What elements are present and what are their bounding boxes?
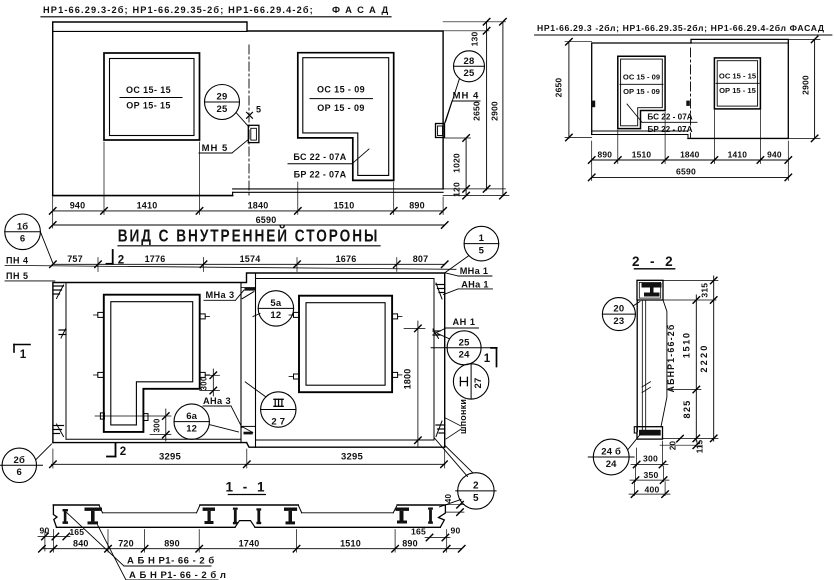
right margin dims 165/90 (section 1-1) — [411, 526, 460, 541]
svg-text:940: 940 — [767, 150, 782, 160]
svg-text:1410: 1410 — [728, 150, 748, 160]
svg-text:300: 300 — [152, 418, 161, 432]
svg-text:6: 6 — [17, 467, 22, 478]
svg-text:ОР 15 - 15: ОР 15 - 15 — [719, 86, 756, 95]
label OC15-15 / OP15-15 — [120, 85, 182, 111]
svg-text:ОР 15 - 09: ОР 15 - 09 — [623, 87, 660, 96]
window OC15-09 opening L-shaped (facade-left) — [298, 53, 394, 181]
dimension 6590 (facade-right) — [588, 164, 791, 181]
svg-text:90: 90 — [451, 526, 461, 536]
svg-text:3295: 3295 — [159, 452, 181, 463]
svg-text:ВИД С ВНУТРЕННЕЙ СТОРОНЫ: ВИД С ВНУТРЕННЕЙ СТОРОНЫ — [118, 225, 380, 246]
embedded T-anchor 6 (section 1-1) — [284, 508, 297, 525]
bottom width dims 300/350/400 (section 2-2) — [629, 441, 670, 497]
svg-text:ОС 15 - 09: ОС 15 - 09 — [623, 73, 660, 82]
window opening left L-shaped (middle view) — [104, 295, 200, 432]
svg-text:АБНР1-66-2б: АБНР1-66-2б — [666, 324, 676, 393]
svg-text:1: 1 — [20, 349, 27, 361]
callout circle 28/25 — [446, 51, 485, 122]
svg-text:МН 4: МН 4 — [453, 91, 480, 102]
svg-text:807: 807 — [413, 254, 429, 264]
svg-text:ПН 4: ПН 4 — [6, 256, 28, 266]
svg-text:40: 40 — [444, 494, 453, 504]
svg-text:890: 890 — [164, 538, 180, 548]
label ABNR1-66-2b rotated (section 2-2) — [666, 324, 676, 393]
svg-text:1840: 1840 — [680, 150, 700, 160]
label MHa3 with leader — [204, 290, 244, 300]
label MH4 with leader — [445, 91, 481, 124]
dimension 315/2220 (section 2-2) — [663, 276, 719, 442]
right-side dimension 1020/120 (facade-left) — [452, 135, 470, 199]
svg-text:2220: 2220 — [699, 343, 709, 372]
dimension row 757/1776/1574/1676/807 (middle view) — [50, 254, 448, 272]
svg-text:МНа 1: МНа 1 — [460, 266, 489, 276]
label ABNR1-66-2b with leader — [67, 513, 215, 567]
svg-text:12: 12 — [186, 423, 197, 434]
embedded I-anchor 1 (section 1-1) — [63, 509, 69, 524]
svg-text:2650: 2650 — [554, 78, 564, 98]
svg-text:29: 29 — [217, 92, 228, 103]
svg-text:5: 5 — [479, 245, 485, 256]
left dimension 2650 (facade-right) — [554, 38, 592, 140]
svg-text:1: 1 — [484, 353, 491, 365]
svg-text:БР 22 - 07А: БР 22 - 07А — [647, 125, 692, 134]
callout circle 24b/24 with leader (section 2-2) — [588, 434, 641, 475]
svg-text:27: 27 — [473, 378, 484, 389]
dimension 300 at window notch — [200, 369, 220, 396]
embedded marks on left window edges — [94, 312, 210, 420]
svg-text:1б: 1б — [17, 221, 29, 232]
callout circle 5a/12 with leader — [253, 291, 294, 326]
svg-text:300: 300 — [643, 454, 658, 464]
svg-text:5а: 5а — [270, 298, 281, 309]
svg-text:25: 25 — [459, 337, 470, 348]
svg-text:НР1-66.29.3 -2бл; НР1-66.29.35: НР1-66.29.3 -2бл; НР1-66.29.35-2бл; НР1-… — [537, 23, 825, 33]
leaders to circle 2/5 from panel corner — [434, 438, 473, 477]
svg-text:1: 1 — [479, 233, 485, 244]
svg-text:840: 840 — [73, 538, 89, 548]
shear key wedge bottom-right edge — [436, 421, 445, 437]
callout circle 20/23 with leader (section 2-2) — [602, 298, 640, 331]
svg-text:2650: 2650 — [472, 101, 482, 121]
svg-text:1 - 1: 1 - 1 — [225, 480, 267, 495]
label OC15-15 / OP15-15 (facade-right) — [716, 72, 759, 96]
svg-text:2900: 2900 — [490, 101, 500, 121]
anchor plate MH5 — [248, 125, 259, 142]
label ABNR1-66-2bl with leader — [98, 525, 227, 580]
svg-text:25: 25 — [217, 104, 228, 115]
svg-text:6а: 6а — [186, 411, 197, 422]
embedded T-anchor 3 (section 1-1) — [203, 508, 215, 525]
dimension 1800 (middle view right) — [403, 321, 426, 447]
svg-text:940: 940 — [70, 201, 86, 211]
svg-text:315: 315 — [700, 283, 710, 298]
section marker 2 (bottom) — [107, 444, 126, 459]
section 2-2 bottom block — [634, 427, 662, 439]
svg-text:ОС 15- 15: ОС 15- 15 — [126, 85, 171, 95]
joint key (top) — [241, 288, 256, 299]
svg-text:1574: 1574 — [240, 254, 261, 264]
embedded T-anchor 7 (section 1-1) — [396, 508, 410, 524]
svg-text:720: 720 — [118, 538, 134, 548]
anchor plate mark (facade-right middle) — [686, 101, 690, 106]
svg-text:А Б Н Р1- 66 - 2 б: А Б Н Р1- 66 - 2 б — [127, 556, 215, 567]
title: facade-right panel marks — [535, 23, 832, 35]
label OC15-09 / OP15-09 — [310, 85, 373, 114]
right dimension 2900 (facade-right) — [788, 36, 820, 141]
dimension row 840/720/890/1740/1510/890 (section 1-1) — [39, 530, 465, 553]
label BC22-07A / BP22-07A with leader — [288, 149, 369, 180]
embedded marks on right window edges — [289, 312, 402, 379]
title section 2-2 — [632, 254, 676, 269]
dimension 300 at bottom left window — [95, 409, 171, 441]
label MH5 with leader — [199, 140, 248, 155]
callout circle 29/25 — [205, 85, 249, 127]
callout circle 6a/12 with leader — [174, 404, 239, 439]
svg-text:350: 350 — [644, 470, 659, 480]
dims 20 and 115 (section 2-2 bottom) — [660, 435, 705, 453]
right-side dimension 130/2650 line (facade-left) — [443, 19, 505, 193]
label BC22-07A / BP22-07A (facade-right) with leader — [627, 104, 697, 134]
svg-text:БС 22 - 07А: БС 22 - 07А — [647, 113, 692, 122]
svg-text:1510: 1510 — [334, 201, 355, 211]
joint axis (facade-left) — [248, 45, 250, 195]
svg-text:400: 400 — [645, 484, 660, 494]
callout circle I/27 vertical split — [453, 364, 488, 399]
section 2-2 top rib block — [637, 280, 663, 300]
svg-text:6: 6 — [20, 234, 25, 245]
svg-text:1410: 1410 — [137, 201, 158, 211]
svg-text:БС 22 - 07А: БС 22 - 07А — [293, 152, 346, 162]
label AHa1 with leader — [444, 279, 493, 294]
svg-text:БР 22 - 07А: БР 22 - 07А — [294, 170, 347, 180]
joint key (bottom) — [241, 426, 256, 434]
left margin dims 90/165 (section 1-1) — [38, 526, 84, 552]
svg-text:24: 24 — [606, 459, 617, 470]
svg-text:1800: 1800 — [403, 369, 413, 390]
facade-left panel outline — [53, 22, 443, 196]
svg-text:ОР 15 - 09: ОР 15 - 09 — [317, 103, 365, 113]
vertical joint between panel halves — [241, 273, 256, 447]
dimension 40 and circle 2/5 (section 1-1 right) — [439, 473, 496, 516]
svg-text:ОС 15 - 09: ОС 15 - 09 — [317, 85, 365, 95]
svg-text:165: 165 — [69, 527, 84, 537]
svg-text:ПН 5: ПН 5 — [6, 271, 28, 281]
svg-text:ОР 15- 15: ОР 15- 15 — [126, 101, 171, 111]
svg-text:АН 1: АН 1 — [453, 317, 476, 327]
svg-text:825: 825 — [682, 400, 692, 419]
anchor plate mark (facade-right left edge) — [592, 101, 596, 108]
svg-text:20: 20 — [613, 304, 624, 315]
label OC15-09 / OP15-09 (facade-right) — [620, 73, 663, 97]
svg-text:2: 2 — [473, 480, 479, 491]
dimension row 940/1410/1840/1510/890 (facade-left) — [49, 142, 446, 215]
callout circle 16/6 with leader — [5, 214, 53, 264]
shear key wedge mid-left edge — [59, 328, 66, 338]
svg-text:2 - 2: 2 - 2 — [632, 254, 676, 269]
svg-text:1020: 1020 — [452, 153, 462, 173]
callout circle III/27 with leader — [245, 382, 296, 428]
svg-text:130: 130 — [470, 32, 480, 47]
embedded T-anchor 2 (section 1-1) — [85, 508, 103, 525]
svg-text:24 б: 24 б — [601, 447, 621, 458]
callout circle 25/24 with leader — [431, 331, 497, 365]
svg-text:НР1-66.29.3-2б; НР1-66.29.35-2: НР1-66.29.3-2б; НР1-66.29.35-2б; НР1-66.… — [43, 5, 314, 15]
dimension 6590 (facade-left) — [49, 215, 448, 229]
svg-text:890: 890 — [598, 150, 613, 160]
svg-text:24: 24 — [459, 350, 470, 361]
window OC15-09 L-shaped (facade-right) — [618, 56, 665, 128]
svg-text:12: 12 — [270, 310, 281, 321]
svg-text:890: 890 — [409, 201, 425, 211]
svg-text:165: 165 — [411, 527, 426, 537]
svg-text:1510: 1510 — [632, 150, 652, 160]
svg-text:1840: 1840 — [248, 201, 269, 211]
label AHa3 with leader — [203, 396, 242, 428]
svg-text:1740: 1740 — [239, 538, 260, 548]
svg-text:1510: 1510 — [682, 331, 692, 358]
window opening right (middle view) — [299, 296, 392, 393]
section marker 1 (right) — [484, 348, 497, 367]
svg-text:1676: 1676 — [336, 254, 357, 264]
svg-text:23: 23 — [613, 316, 624, 327]
joint axis (facade-right) — [690, 48, 692, 138]
shear key wedge top-right edge — [436, 283, 445, 299]
svg-text:1776: 1776 — [145, 254, 166, 264]
shear key wedge top-left edge — [53, 285, 64, 299]
svg-text:2900: 2900 — [801, 75, 811, 95]
title section 1-1 — [225, 480, 267, 495]
svg-text:ФАСАД: ФАСАД — [332, 4, 394, 15]
dimension row 3295/3295 (middle view bottom) — [50, 449, 448, 468]
svg-text:АНа 3: АНа 3 — [203, 396, 231, 406]
svg-text:120: 120 — [452, 182, 462, 197]
svg-text:1510: 1510 — [340, 538, 361, 548]
title: view from inner side — [118, 225, 380, 246]
svg-text:3295: 3295 — [341, 452, 363, 463]
window OC15-15 (facade-right) — [714, 58, 760, 109]
embedded I-anchor 5 (section 1-1) — [256, 508, 261, 524]
middle panel outline — [53, 273, 445, 447]
shear key wedge mid-right edge — [433, 329, 440, 339]
svg-text:6590: 6590 — [676, 167, 696, 177]
label shponki (keys) rotated with leaders — [445, 399, 469, 439]
svg-text:890: 890 — [402, 538, 418, 548]
svg-text:МН 5: МН 5 — [202, 143, 229, 154]
svg-text:шпонки: шпонки — [458, 399, 468, 434]
svg-text:АНа 1: АНа 1 — [461, 279, 489, 289]
section 1-1 outline — [53, 505, 445, 527]
svg-text:5: 5 — [473, 493, 479, 504]
shear key wedge bottom-left edge — [53, 424, 64, 437]
svg-text:6590: 6590 — [256, 215, 277, 225]
label PN5 with leader line — [5, 271, 55, 281]
embedded I-anchor 4 (section 1-1) — [233, 508, 238, 525]
svg-text:2 7: 2 7 — [271, 416, 285, 427]
label PN4 with leader line — [5, 256, 456, 270]
svg-text:ОС 15 - 15: ОС 15 - 15 — [719, 72, 757, 81]
callout circle 2b/6 with leader — [0, 444, 52, 482]
svg-text:25: 25 — [464, 68, 475, 79]
svg-text:757: 757 — [67, 254, 83, 264]
svg-text:А Б Н Р1- 66 - 2 б л: А Б Н Р1- 66 - 2 б л — [129, 570, 226, 580]
svg-text:300: 300 — [200, 376, 209, 390]
svg-text:2б: 2б — [14, 455, 26, 466]
svg-text:28: 28 — [464, 56, 475, 67]
section marker 1 (left) — [14, 345, 30, 362]
section 2-2 panel body — [637, 300, 667, 431]
label MHa1 with leader — [446, 266, 493, 276]
dimension row 890/1510/1840/1410/940 (facade-right) — [588, 110, 791, 164]
section marker 2 (top) — [107, 250, 125, 267]
svg-text:МНа 3: МНа 3 — [205, 290, 234, 300]
callout circle 1/5 with leader — [445, 226, 499, 273]
embedded anchor in top rib (section 2-2) — [642, 283, 662, 297]
right-side dimension 2900 (facade-left) — [443, 19, 509, 199]
svg-text:5: 5 — [256, 105, 261, 115]
anchor plate MH4 (facade-left right edge) — [436, 124, 445, 138]
label AH1 with leader — [435, 317, 479, 333]
title: facade-left panel marks — [41, 4, 394, 17]
dimension 1510/825 (section 2-2) — [663, 295, 716, 442]
facade-right panel outline — [592, 39, 789, 138]
window OC15-15 opening (facade-left) — [104, 53, 200, 140]
mark +5 on axis — [247, 105, 262, 119]
svg-text:2: 2 — [120, 446, 127, 458]
embedded I-anchor 8 (section 1-1) — [428, 508, 433, 524]
